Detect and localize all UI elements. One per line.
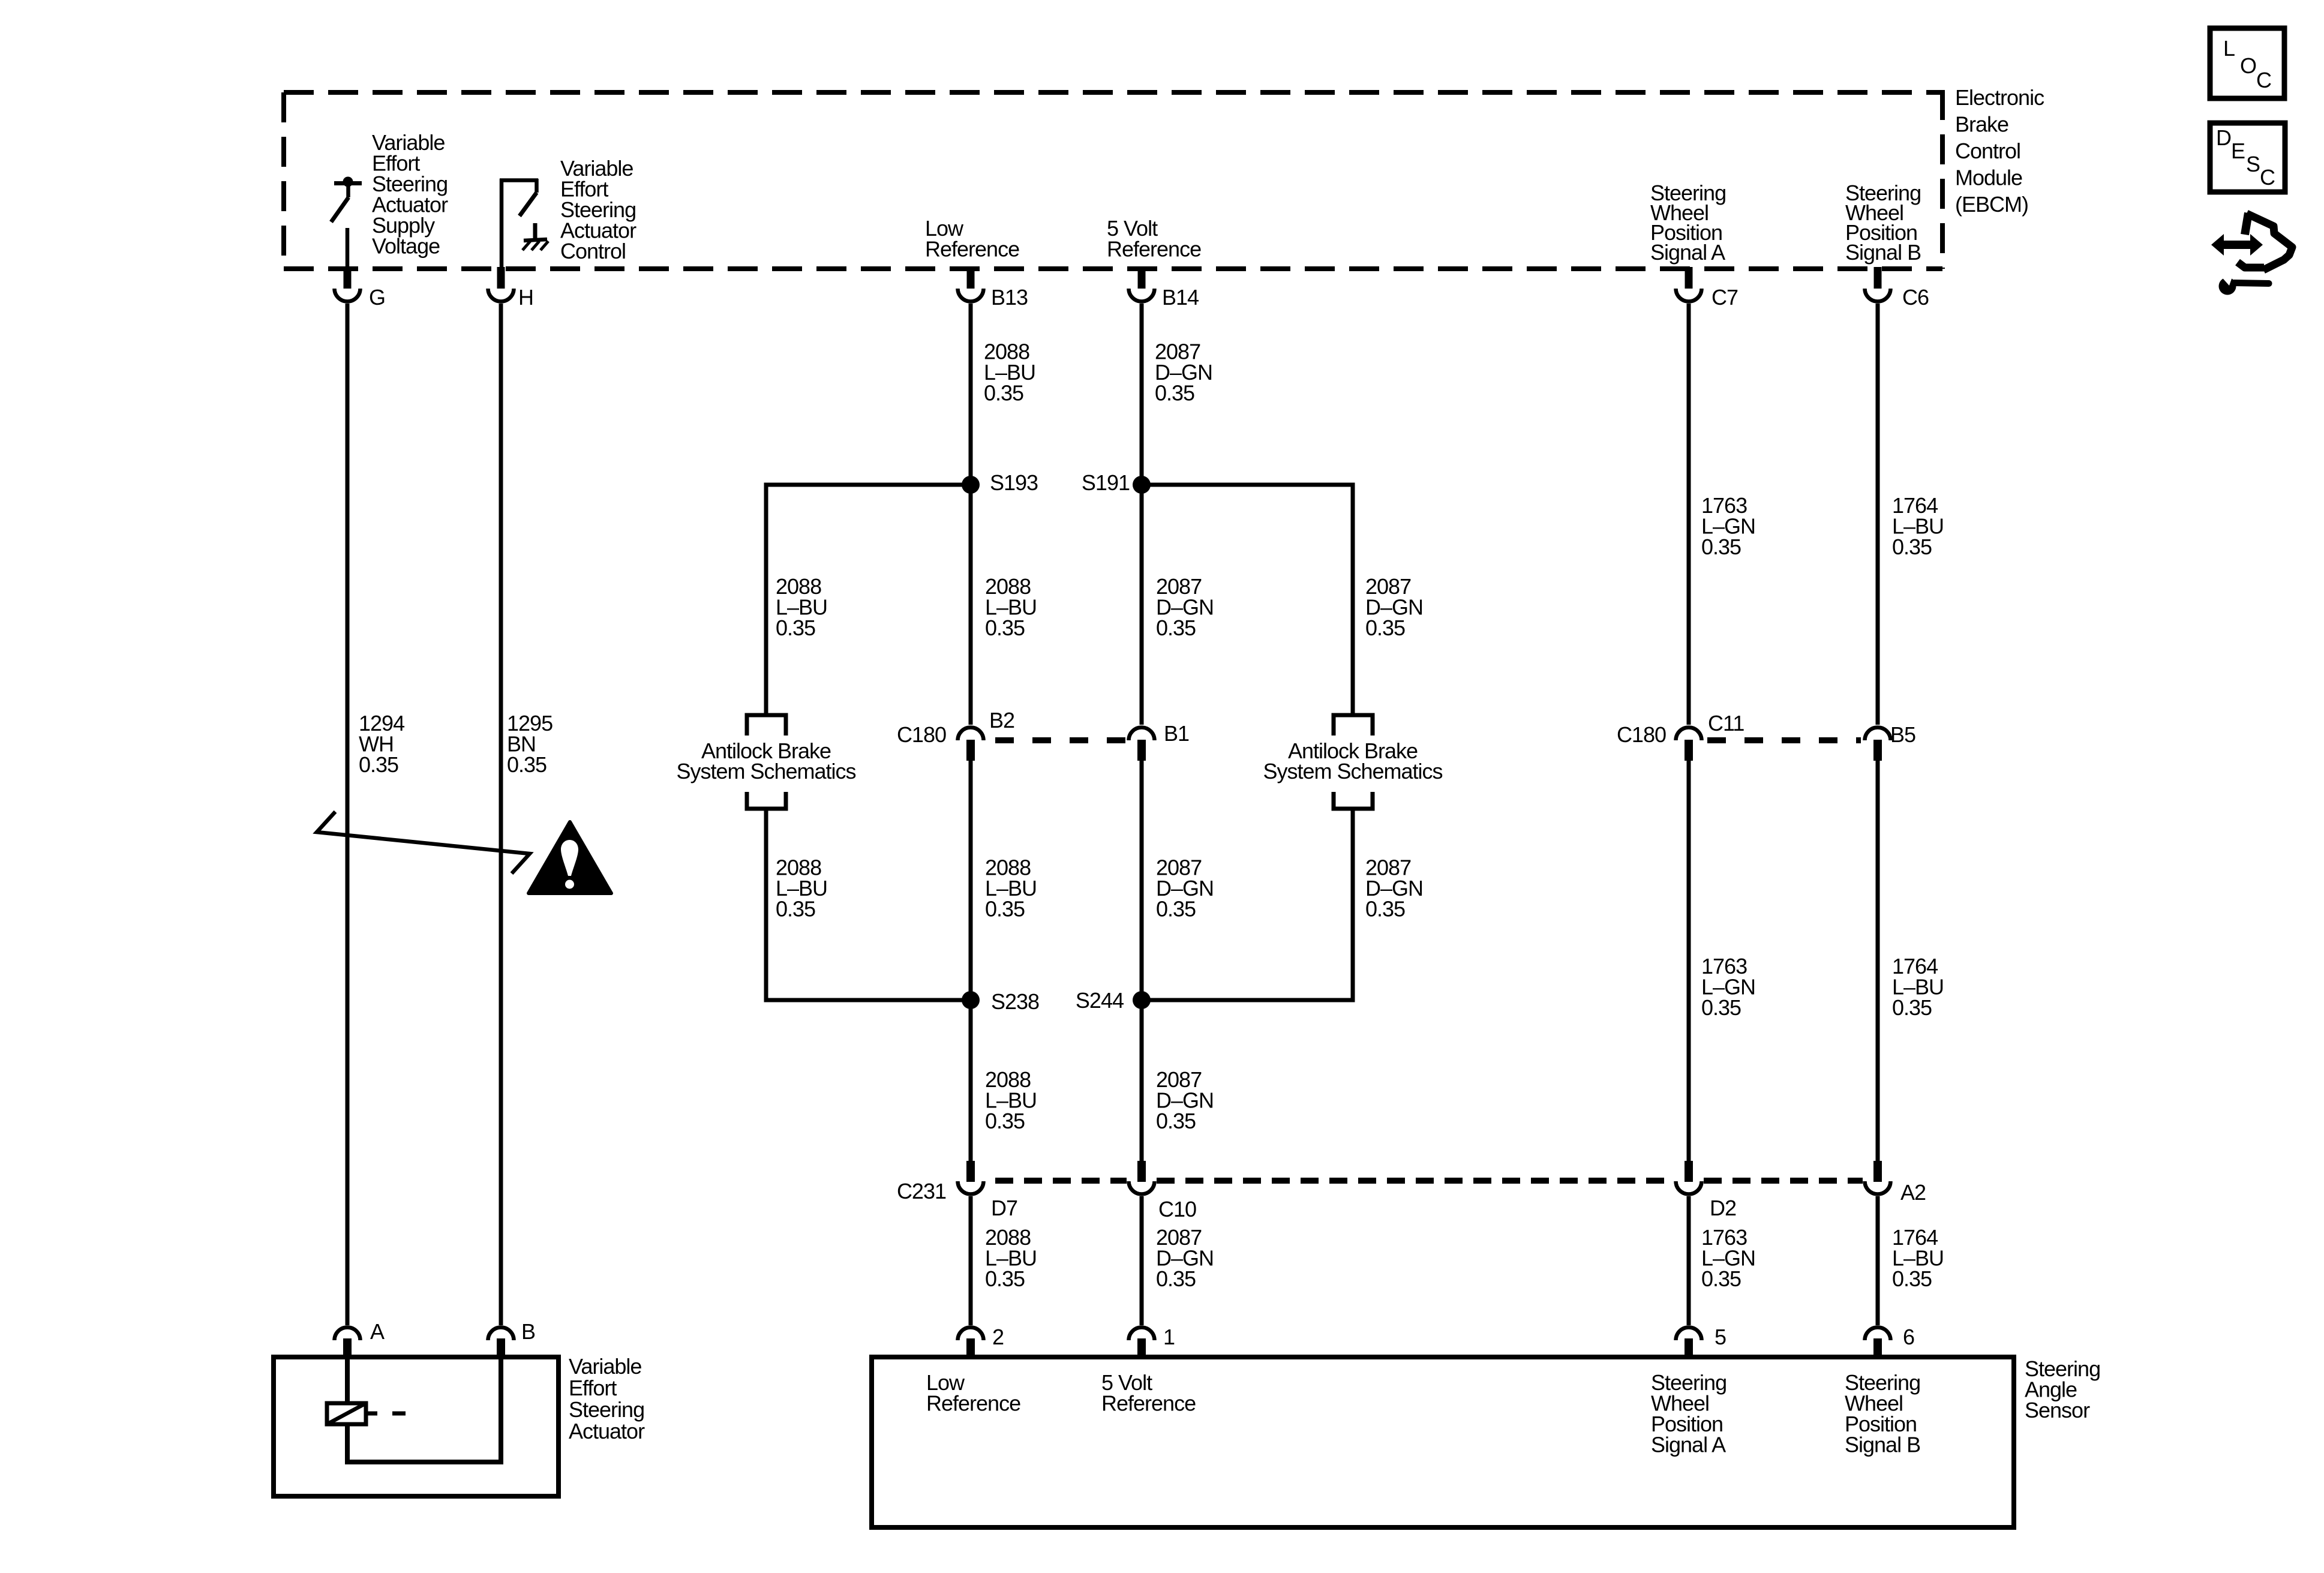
polarity dash (minus): [392, 1412, 406, 1416]
wire label 1763 L-GN 0.35 (C7 upper segment): [1701, 493, 1755, 559]
wire label 1764 L-BU 0.35 (B5 to A2): [1892, 954, 1944, 1020]
svg-text:0.35: 0.35: [1365, 616, 1405, 640]
connector pin B (component): [488, 1328, 514, 1358]
wire left bracket to S238: [766, 809, 971, 1000]
wire right bracket to S244: [1142, 809, 1353, 1000]
svg-text:B14: B14: [1162, 285, 1199, 310]
splice S244: [1133, 991, 1151, 1009]
svg-text:H: H: [518, 285, 533, 310]
svg-text:0.35: 0.35: [1156, 1109, 1196, 1133]
svg-text:C180: C180: [897, 722, 946, 747]
wire S238 to D7: [969, 1000, 973, 1161]
svg-text:C180: C180: [1617, 722, 1666, 747]
ground (chassis) inside EBCM: [523, 223, 548, 250]
svg-text:O: O: [2240, 53, 2256, 78]
wire C10 to pin 1: [1140, 1196, 1144, 1325]
connector pin 2 (component): [958, 1328, 984, 1358]
svg-text:0.35: 0.35: [1156, 1266, 1196, 1291]
connector C180 terminal B1: [1129, 728, 1155, 761]
wire 1764 L-BU (C6 to B5): [1876, 304, 1880, 725]
svg-text:Signal B: Signal B: [1845, 240, 1921, 265]
svg-text:Reference: Reference: [926, 1391, 1020, 1416]
svg-text:Signal B: Signal B: [1845, 1433, 1920, 1457]
dashed connector line C11 to B5: [1707, 737, 1861, 743]
wire label 1763 L-GN 0.35 (D2 to pin 5): [1701, 1225, 1755, 1291]
svg-text:(EBCM): (EBCM): [1955, 192, 2028, 217]
wire 1295 BN (H to B): [499, 304, 503, 1325]
wire label 2087 D-GN 0.35 (right branch upper): [1365, 574, 1423, 640]
svg-text:B1: B1: [1164, 721, 1189, 746]
label Steering Wheel Position Signal A (sensor pin 5): [1651, 1370, 1727, 1457]
connector pin B14 (EBCM): [1129, 267, 1155, 302]
wire C11 to D2: [1687, 761, 1691, 1161]
svg-text:1: 1: [1163, 1325, 1175, 1349]
svg-text:Actuator: Actuator: [569, 1419, 645, 1443]
label 5 Volt Reference (EBCM pin B14): [1107, 216, 1201, 262]
connector pin C6 (EBCM): [1865, 267, 1891, 302]
splice S238: [962, 991, 980, 1009]
svg-text:B5: B5: [1890, 722, 1915, 747]
svg-text:A: A: [370, 1319, 385, 1344]
svg-text:0.35: 0.35: [985, 616, 1025, 640]
wire B1 to S244: [1140, 761, 1144, 1000]
switch-to-ground symbol: Variable Effort Steering Actuator Control driver: [500, 179, 538, 268]
svg-text:G: G: [369, 285, 385, 310]
svg-text:C11: C11: [1708, 711, 1744, 736]
wire label 1294 WH 0.35: [359, 711, 404, 777]
wire B2 to S238: [969, 761, 973, 1000]
wire pin A to solenoid: [345, 1357, 350, 1403]
connector C180 terminal C11: [1676, 728, 1702, 761]
svg-text:Reference: Reference: [1101, 1391, 1196, 1416]
connector C180 terminal B2: [958, 728, 984, 761]
off-page bracket: Antilock Brake System Schematics (left, bottom half): [747, 792, 786, 809]
wire label 1295 BN 0.35: [507, 711, 553, 777]
wire label 2088 L-BU 0.35 (S238 to D7): [985, 1067, 1037, 1133]
leader line (warning pointer): [317, 812, 530, 873]
svg-text:0.35: 0.35: [1892, 1266, 1932, 1291]
connector pin 6 (component): [1865, 1328, 1891, 1358]
label Steering Angle Sensor: [2025, 1356, 2100, 1422]
svg-text:Control: Control: [1955, 139, 2020, 163]
wire label 1764 L-BU 0.35 (A2 to pin 6): [1892, 1225, 1944, 1291]
svg-text:0.35: 0.35: [985, 897, 1025, 921]
label 5 Volt Reference (sensor pin 1): [1101, 1370, 1196, 1416]
wire S193 to B2: [969, 485, 973, 725]
svg-text:S193: S193: [990, 470, 1038, 495]
connector pin A (component): [335, 1328, 361, 1358]
svg-text:Brake: Brake: [1955, 112, 2008, 137]
wire S244 to C10: [1140, 1000, 1144, 1161]
svg-text:Effort: Effort: [569, 1376, 617, 1400]
wire solenoid to pin B (internal loop): [347, 1357, 501, 1462]
svg-text:D: D: [2216, 125, 2231, 150]
svg-text:C: C: [2256, 68, 2271, 92]
connector pin 5 (component): [1676, 1328, 1702, 1358]
svg-text:0.35: 0.35: [776, 616, 815, 640]
svg-text:S238: S238: [991, 989, 1039, 1014]
wire A2 to pin 6: [1876, 1196, 1880, 1325]
wire label 2088 L-BU 0.35 (B13 segment): [984, 340, 1035, 406]
label Variable Effort Steering Actuator Supply Voltage: [372, 130, 448, 259]
label Low Reference (EBCM pin B13): [925, 216, 1019, 262]
svg-text:0.35: 0.35: [359, 752, 398, 777]
svg-text:D7: D7: [991, 1196, 1017, 1220]
legend box DESC: [2210, 123, 2285, 192]
label Low Reference (sensor pin 2): [926, 1370, 1020, 1416]
connector C231 terminal C10: [1129, 1161, 1155, 1194]
connector C231 terminal D7: [958, 1161, 984, 1194]
wire label 2087 D-GN 0.35 (C10 to pin 1): [1156, 1225, 1214, 1291]
svg-text:Voltage: Voltage: [372, 234, 440, 259]
svg-text:0.35: 0.35: [985, 1266, 1025, 1291]
label Variable Effort Steering Actuator Control: [560, 156, 636, 263]
wire label 2087 D-GN 0.35 (right branch lower): [1365, 855, 1423, 921]
svg-text:A2: A2: [1900, 1180, 1926, 1205]
label Steering Wheel Position Signal A (EBCM pin C7): [1650, 181, 1726, 265]
svg-text:S244: S244: [1076, 988, 1124, 1013]
svg-text:Reference: Reference: [1107, 237, 1201, 262]
svg-text:0.35: 0.35: [1892, 995, 1932, 1020]
svg-text:System Schematics: System Schematics: [1263, 759, 1442, 784]
svg-text:C231: C231: [897, 1179, 946, 1203]
wire label 2087 D-GN 0.35 (S244 to C10): [1156, 1067, 1214, 1133]
legend box LOC: [2210, 28, 2284, 98]
svg-text:C10: C10: [1158, 1197, 1196, 1221]
label Steering Wheel Position Signal B (EBCM pin C6): [1845, 181, 1921, 265]
svg-text:6: 6: [1903, 1325, 1914, 1349]
label Electronic Brake Control Module (EBCM): [1955, 85, 2044, 217]
warning triangle symbol: [529, 822, 611, 893]
svg-text:E: E: [2231, 139, 2245, 163]
module box EBCM (dashed outline): [284, 90, 1942, 269]
svg-text:0.35: 0.35: [1701, 995, 1741, 1020]
svg-text:0.35: 0.35: [1365, 897, 1405, 921]
svg-text:0.35: 0.35: [1701, 1266, 1741, 1291]
dashed connector line B2 to B1: [995, 737, 1127, 743]
connector pin B13 (EBCM): [958, 267, 984, 302]
wire label 1764 L-BU 0.35 (C6 upper segment): [1892, 493, 1944, 559]
off-page bracket: Antilock Brake System Schematics (right, top half): [1334, 715, 1373, 736]
svg-text:0.35: 0.35: [776, 897, 815, 921]
wire 1763 L-GN (C7 to C11): [1687, 304, 1691, 725]
svg-text:L: L: [2223, 36, 2235, 61]
connector C231 terminal D2: [1676, 1161, 1702, 1194]
svg-text:Signal A: Signal A: [1651, 1433, 1726, 1457]
svg-text:Reference: Reference: [925, 237, 1019, 262]
svg-text:Sensor: Sensor: [2025, 1398, 2090, 1422]
svg-text:C: C: [2260, 165, 2275, 190]
wire D2 to pin 5: [1687, 1196, 1691, 1325]
connector pin C7 (EBCM): [1676, 267, 1702, 302]
svg-text:Module: Module: [1955, 166, 2022, 190]
svg-text:D2: D2: [1710, 1196, 1736, 1220]
dashed connector line D2 to A2: [1704, 1178, 1863, 1184]
connector pin 1 (component): [1129, 1328, 1155, 1358]
svg-text:0.35: 0.35: [984, 381, 1023, 406]
wire label 2088 L-BU 0.35 (left branch lower): [776, 855, 827, 921]
switch symbol: Variable Effort Steering Actuator Supply Voltage output driver: [331, 177, 362, 268]
connector pin G (EBCM): [335, 267, 361, 302]
dashed connector line C10 to D2: [1157, 1178, 1674, 1184]
svg-text:0.35: 0.35: [1156, 616, 1196, 640]
component box Variable Effort Steering Actuator: [274, 1357, 559, 1496]
label Antilock Brake System Schematics (right): [1263, 739, 1442, 784]
splice S193: [962, 476, 980, 494]
wire S191 to B1: [1140, 485, 1144, 725]
svg-text:0.35: 0.35: [985, 1109, 1025, 1133]
svg-text:0.35: 0.35: [507, 752, 547, 777]
off-page bracket: Antilock Brake System Schematics (right, bottom half): [1334, 792, 1373, 809]
svg-text:S: S: [2246, 152, 2260, 176]
svg-text:C6: C6: [1902, 285, 1929, 310]
label Variable Effort Steering Actuator: [569, 1354, 645, 1443]
svg-text:2: 2: [992, 1325, 1004, 1349]
svg-text:B: B: [521, 1319, 535, 1344]
wire label 2088 L-BU 0.35 (D7 to pin 2): [985, 1225, 1037, 1291]
wire 2088 L-BU (B13 to S193): [969, 304, 973, 485]
dashed connector line D7 to C10: [995, 1178, 1127, 1184]
wire 2087 D-GN (B14 to S191): [1140, 304, 1144, 485]
wire label 2088 L-BU 0.35 (left branch upper): [776, 574, 827, 640]
wire label 2087 D-GN 0.35 (B1 to S244): [1156, 855, 1214, 921]
connector C231 terminal A2: [1865, 1161, 1891, 1194]
svg-text:B13: B13: [991, 285, 1028, 310]
svg-text:Variable: Variable: [569, 1354, 641, 1379]
svg-text:Control: Control: [560, 239, 626, 263]
svg-text:System Schematics: System Schematics: [676, 759, 855, 784]
svg-text:Electronic: Electronic: [1955, 85, 2044, 110]
wire B5 to A2: [1876, 761, 1880, 1161]
svg-text:5: 5: [1715, 1325, 1726, 1349]
wire label 2088 L-BU 0.35 (B2 to S238): [985, 855, 1037, 921]
svg-text:0.35: 0.35: [1892, 535, 1932, 559]
label Antilock Brake System Schematics (left): [676, 739, 855, 784]
wire branch S193 to left Antilock bracket: [766, 485, 971, 715]
wire D7 to pin 2: [969, 1196, 973, 1325]
svg-text:Steering: Steering: [569, 1397, 644, 1422]
svg-text:0.35: 0.35: [1155, 381, 1194, 406]
connector C180 terminal B5: [1865, 728, 1891, 761]
connector pin H (EBCM): [488, 267, 514, 302]
wire 1294 WH (G to A): [346, 304, 350, 1325]
svg-text:B2: B2: [989, 708, 1014, 733]
label Steering Wheel Position Signal B (sensor pin 6): [1845, 1370, 1920, 1457]
off-page bracket: Antilock Brake System Schematics (left, top half): [747, 715, 786, 736]
wire label 2088 L-BU 0.35 (S193 to B2): [985, 574, 1037, 640]
svg-text:S191: S191: [1082, 470, 1130, 495]
wire label 2087 D-GN 0.35 (B14 segment): [1155, 340, 1212, 406]
solenoid (actuator coil): [327, 1403, 377, 1424]
legend icon: arrow into component with wrench: [2211, 213, 2292, 295]
wire label 2087 D-GN 0.35 (S191 to B1): [1156, 574, 1214, 640]
component box Steering Angle Sensor: [872, 1357, 2014, 1527]
svg-text:0.35: 0.35: [1156, 897, 1196, 921]
wire label 1763 L-GN 0.35 (C11 to D2): [1701, 954, 1755, 1020]
wire branch S191 to right Antilock bracket: [1142, 485, 1353, 715]
splice S191: [1133, 476, 1151, 494]
svg-text:C7: C7: [1712, 285, 1738, 310]
svg-text:0.35: 0.35: [1701, 535, 1741, 559]
svg-text:Signal A: Signal A: [1650, 240, 1725, 265]
